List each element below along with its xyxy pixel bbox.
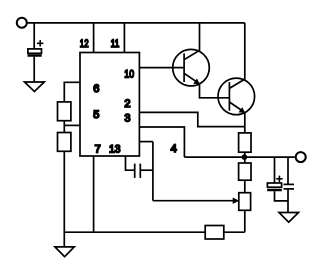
ground (bottom left) [55,247,74,257]
arrowhead pot wiper [233,198,240,204]
wire pin 3 to output node [139,127,184,157]
wire input drop to C1 [33,23,35,49]
resistor R3 (current sense) [239,133,251,152]
capacitor C3 (polarized, output) [267,183,282,190]
op-amp U1 (regulator IC body) [80,53,139,157]
wire R3 to output node [244,152,246,157]
plus sign C3 [276,176,282,182]
wire drop to C3 [274,157,276,183]
node (junction dot at output) [242,154,248,160]
wire bottom rail right part [224,231,245,233]
svg-text:4: 4 [171,143,177,155]
svg-text:12: 12 [80,38,89,50]
wire Q1 collector to rail [199,23,201,51]
terminal J1 (input) [17,18,27,28]
wire drop to C4 [287,157,289,184]
wire Q2 emitter down to R3 [244,113,246,133]
ground (input) [25,82,45,92]
wire pot bottom to ground rail [244,210,246,232]
resistor R2 (left bottom) [58,133,71,152]
capacitor C2 (compensation) [135,164,141,178]
wire Q2 collector to rail [244,23,246,80]
wire pin 11 stub [123,23,125,53]
capacitor C4 (output) [284,184,295,189]
wire R1 to R2 [63,121,65,133]
wire C1 to ground [33,57,35,82]
wire output rail [184,156,294,158]
svg-text:11: 11 [111,38,120,50]
svg-text:3: 3 [124,113,130,125]
resistor R1 (left top) [58,102,71,121]
wire pin 12 stub [93,23,95,53]
wire bottom ground rail left part [64,231,205,233]
svg-text:5: 5 [93,109,99,121]
transistor Q2 (NPN) [218,78,255,115]
wire pot wiper with arrow [153,200,233,202]
resistor R4 (divider top) [239,163,251,180]
wire C4 to ground [287,189,289,213]
wire pin 13 to C2 [126,156,135,170]
wire C2 to pin4 net [140,169,153,171]
wire R2 down to ground [63,151,65,247]
plus sign C1 [37,40,43,46]
wire R4 to R5 [244,180,246,193]
wire pin 2 to Q2 emitter node [139,112,244,126]
wire V+ top rail [28,22,245,24]
wire Q1 emitter to Q2 base [200,84,230,98]
wire pin 4 net vertical to wiper [152,142,154,201]
wire pin 4 stub [139,141,153,143]
svg-text:7: 7 [95,143,101,155]
svg-text:10: 10 [124,68,134,80]
resistor R5 (potentiometer body) [239,193,251,211]
resistor R6 (bottom) [205,226,224,240]
ground (output) [279,213,299,223]
terminal J2 (output) [296,152,306,162]
capacitor C1 (polarized, input) [28,49,42,56]
svg-text:2: 2 [124,98,130,110]
wire node to R4 [244,157,246,163]
wire pin 5 tap [64,124,80,126]
wire pin 7 to ground rail [93,156,95,232]
wire pin 10 to Q1 base [139,67,184,69]
wire C3 bottom jog [275,191,289,201]
svg-text:6: 6 [93,83,99,95]
wire pin 6 to R1 [64,82,80,102]
svg-text:13: 13 [109,143,121,155]
transistor Q1 (NPN) [173,49,210,86]
